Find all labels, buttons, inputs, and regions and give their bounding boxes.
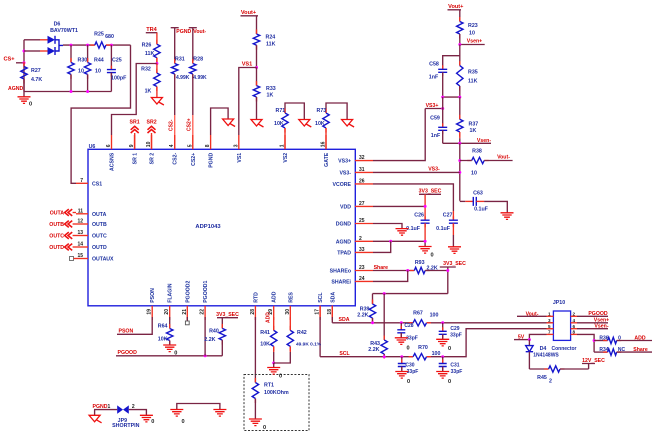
pin 32 VS3+ (right): [338, 155, 373, 165]
svg-text:0.1uF: 0.1uF: [474, 206, 489, 212]
capacitor C29 33pF: [439, 323, 462, 340]
pin 3 VS1 (top): [233, 135, 243, 163]
resistor R30 10: [68, 45, 87, 91]
svg-text:1: 1: [548, 312, 551, 317]
svg-text:PGOOD2: PGOOD2: [185, 280, 191, 302]
resistor R45 2: [529, 366, 588, 385]
svg-text:Share: Share: [374, 265, 389, 271]
svg-text:0: 0: [448, 346, 451, 352]
svg-text:CS1: CS1: [92, 181, 102, 187]
svg-text:13: 13: [77, 230, 83, 236]
svg-text:SR 1: SR 1: [133, 153, 139, 165]
resistor R26 11K: [142, 33, 160, 64]
wire to D6 upper anode: [24, 39, 48, 41]
ground 0 below C31: [436, 372, 451, 386]
capacitor C63 0.1uF: [460, 190, 508, 213]
resistor R31 4.99K: [172, 28, 190, 81]
pin 27 VDD (right): [340, 201, 373, 211]
svg-text:100: 100: [430, 312, 439, 318]
port OUTB: [49, 221, 76, 228]
svg-text:2: 2: [573, 312, 576, 317]
pin 8 PGND (top): [205, 135, 215, 168]
svg-text:Vsen-: Vsen-: [477, 138, 491, 144]
svg-text:1K: 1K: [145, 89, 152, 95]
svg-text:30: 30: [285, 309, 291, 315]
svg-text:1: 1: [108, 404, 111, 410]
wire SDA line: [332, 321, 553, 324]
svg-text:SHAREo: SHAREo: [330, 269, 351, 275]
svg-text:0: 0: [406, 345, 409, 351]
svg-text:VCORE: VCORE: [333, 182, 352, 188]
svg-text:3V3_SEC: 3V3_SEC: [443, 261, 466, 267]
ground 0 below R41: [267, 363, 282, 380]
svg-text:10K: 10K: [158, 336, 168, 342]
svg-text:OUTC: OUTC: [49, 234, 64, 240]
pin 17 SCL (bottom): [315, 292, 325, 320]
svg-text:R70: R70: [418, 345, 428, 351]
node AGND rail: [8, 86, 111, 93]
wire DGND to ground: [373, 224, 402, 229]
wire VDD to 3V3_SEC: [373, 205, 427, 208]
svg-text:1N4148WS: 1N4148WS: [533, 353, 559, 359]
ground 0 below RT1: [249, 419, 266, 431]
ground below C27: [448, 247, 461, 254]
pin 11 OUTA (left): [76, 208, 107, 218]
pin 1 JP10 (left): [547, 312, 554, 317]
svg-text:C25: C25: [112, 58, 122, 64]
svg-text:R33: R33: [266, 86, 276, 92]
node VS3- wire to pin 31: [373, 166, 460, 172]
resistor R25 680: [90, 32, 114, 49]
resistor R27 4.7K: [21, 62, 43, 92]
node PGND1: [93, 404, 118, 410]
svg-text:R41: R41: [260, 330, 270, 336]
node Share right: [633, 347, 648, 353]
wire AGND rail to ground: [373, 240, 427, 247]
svg-text:R30: R30: [78, 58, 88, 64]
svg-text:2.2K: 2.2K: [368, 347, 379, 353]
svg-text:2: 2: [359, 236, 362, 242]
pin 12 OUTB (left): [76, 219, 107, 229]
svg-text:33pF: 33pF: [451, 369, 463, 375]
ground 0 below R27: [18, 92, 33, 108]
svg-text:C30: C30: [405, 363, 414, 369]
svg-text:VS1: VS1: [237, 153, 243, 163]
resistor R33 1K: [253, 68, 275, 120]
svg-text:R44: R44: [94, 58, 104, 64]
svg-text:R37: R37: [469, 122, 479, 128]
svg-text:ADD: ADD: [272, 291, 278, 302]
pin 5 JP10 (left): [547, 324, 554, 329]
ground 0 below C28: [395, 338, 410, 352]
thermistor RT1 100KOhm: [252, 378, 289, 419]
ground below DGND: [396, 229, 409, 236]
node ADD right: [634, 335, 645, 341]
svg-text:100KOhm: 100KOhm: [264, 390, 289, 396]
svg-text:1K: 1K: [470, 128, 477, 134]
capacitor C27 0.1uF: [436, 212, 458, 247]
wire VS3+ to pin 32: [373, 109, 425, 161]
svg-text:SR1: SR1: [130, 120, 140, 126]
capacitor C58 1nF: [429, 56, 460, 97]
svg-text:R42: R42: [297, 330, 307, 336]
capacitor C25 100pF: [107, 45, 127, 91]
wire pullup rail 3V3_SEC: [373, 292, 448, 295]
svg-text:0: 0: [407, 379, 410, 385]
node 3V3_SEC right of R93: [440, 261, 466, 294]
pin 24 SHAREi (right): [331, 276, 373, 286]
svg-text:OUTC: OUTC: [92, 234, 107, 240]
svg-text:CS2-: CS2-: [173, 153, 179, 165]
svg-text:11: 11: [78, 208, 84, 214]
diode D4 1N4148WS: [526, 340, 533, 369]
svg-text:OUTD: OUTD: [92, 245, 107, 251]
node Share on SHAREo: [373, 265, 414, 272]
svg-text:27: 27: [359, 201, 365, 207]
node Vout- into JP10 pin 1: [517, 311, 547, 317]
svg-text:SCL: SCL: [318, 292, 324, 303]
wire SCL line: [320, 329, 553, 359]
svg-text:14: 14: [77, 242, 83, 248]
svg-text:1K: 1K: [267, 92, 274, 98]
svg-text:C29: C29: [450, 326, 459, 332]
svg-text:R28: R28: [193, 57, 203, 63]
wire VS1 to pin 3: [239, 68, 257, 136]
svg-text:28: 28: [250, 309, 256, 315]
node Vout+ (left): [241, 10, 259, 16]
svg-text:ADD: ADD: [634, 335, 645, 341]
resistor R93 2.2K: [410, 260, 448, 274]
wire PGOOD1 pin 22 riser: [204, 317, 206, 356]
svg-text:8: 8: [205, 144, 211, 147]
svg-text:R31: R31: [175, 57, 185, 63]
svg-text:PGND: PGND: [209, 153, 215, 168]
svg-text:SR 2: SR 2: [150, 153, 156, 165]
svg-text:20: 20: [164, 309, 170, 315]
svg-text:9: 9: [129, 144, 135, 147]
svg-text:OUTA: OUTA: [92, 212, 107, 218]
unconnected square pin 21: [185, 317, 189, 325]
svg-text:PGOOD1: PGOOD1: [203, 280, 209, 302]
svg-text:AGND: AGND: [8, 86, 24, 92]
resistor R42 49.9K 0.1%: [274, 317, 322, 363]
resistor R34 NC to Share: [594, 347, 652, 355]
resistor R64 10K: [158, 317, 173, 345]
svg-text:CS2-: CS2-: [169, 119, 175, 131]
svg-text:CS2+: CS2+: [187, 118, 193, 131]
capacitor C28 33pF: [397, 323, 418, 342]
svg-text:10: 10: [78, 69, 84, 75]
capacitor C30 33pF: [398, 357, 419, 375]
svg-text:R40: R40: [209, 329, 219, 335]
node 3V3_SEC above R40: [216, 312, 239, 318]
svg-text:4.99K: 4.99K: [176, 75, 190, 81]
svg-text:0: 0: [279, 374, 282, 380]
node 12V_SEC: [582, 358, 605, 369]
pin 23 SHAREo (right): [330, 265, 373, 275]
wire CS2- to pin 4: [169, 74, 175, 149]
node VS3+ rail: [425, 96, 461, 110]
pin 28 RTD (bottom): [250, 292, 260, 320]
pin 1 VS2 (top): [280, 135, 290, 163]
svg-text:Vsen+: Vsen+: [467, 38, 482, 44]
resistor R70 100: [409, 345, 441, 360]
resistor R38 10: [460, 149, 513, 177]
svg-text:PGOOD: PGOOD: [588, 311, 608, 317]
pin 16 GATE (top): [321, 135, 331, 167]
node Vout- label above R28: [189, 28, 207, 35]
wire to D6 lower anode: [24, 50, 48, 52]
pin 10 SR 2 (top): [146, 135, 156, 164]
diode D6 BAV70WT1 (dual common-cathode): [48, 22, 78, 56]
svg-text:0.1uF: 0.1uF: [436, 226, 451, 232]
svg-text:R34: R34: [599, 347, 608, 353]
node PGND label above R31: [171, 28, 192, 35]
svg-text:8: 8: [573, 330, 576, 335]
unconnected square pin 15 OUTAUX: [70, 257, 77, 261]
wire ACSNS route to pin 6: [112, 64, 157, 136]
power ground right of R71: [299, 120, 312, 128]
resistor R23 10: [457, 10, 478, 45]
svg-text:R71: R71: [276, 108, 286, 114]
svg-text:2.2K: 2.2K: [357, 313, 368, 319]
svg-text:C63: C63: [473, 190, 483, 196]
node CS+: [3, 57, 24, 63]
wire Vsen- vertical to VS3- and C63: [458, 143, 461, 201]
wire CS2+ to pin 5: [187, 74, 193, 149]
svg-text:24: 24: [359, 276, 365, 282]
capacitor C26 0.1uF: [406, 212, 429, 241]
svg-text:Vsen-: Vsen-: [594, 324, 608, 330]
svg-text:RTD: RTD: [253, 292, 259, 303]
svg-text:3: 3: [548, 318, 551, 323]
resistor R71 10K: [274, 103, 304, 149]
svg-text:DGND: DGND: [336, 222, 352, 228]
node Vout+ (right): [448, 4, 465, 10]
svg-text:R27: R27: [31, 68, 41, 74]
node PGOOD from JP10 pin 2: [577, 311, 608, 317]
svg-text:C59: C59: [430, 116, 440, 122]
svg-text:OUTA: OUTA: [50, 211, 65, 217]
svg-text:C58: C58: [429, 62, 439, 68]
svg-text:3: 3: [233, 144, 239, 147]
ground 0 below C30: [395, 372, 410, 386]
pin 30 RES (bottom): [285, 292, 295, 320]
svg-text:D4: D4: [540, 346, 547, 352]
svg-text:C26: C26: [414, 212, 424, 218]
svg-text:4.7K: 4.7K: [31, 77, 42, 83]
svg-text:4: 4: [169, 144, 175, 147]
wire PGND pin 8 riser: [211, 108, 229, 135]
pin 25 DGND (right): [336, 218, 373, 228]
svg-text:R26: R26: [142, 43, 152, 49]
node PSON: [117, 317, 152, 335]
pin 8 JP10 (right): [571, 330, 577, 335]
svg-text:10K: 10K: [260, 342, 270, 348]
svg-text:R36: R36: [599, 335, 608, 341]
svg-text:680: 680: [105, 34, 114, 40]
svg-text:SDA: SDA: [339, 317, 350, 323]
svg-text:PSON: PSON: [150, 288, 156, 303]
svg-text:NC: NC: [618, 347, 626, 353]
svg-text:U6: U6: [89, 144, 96, 150]
svg-text:1: 1: [280, 144, 286, 147]
svg-text:ACSNS: ACSNS: [110, 152, 116, 171]
svg-text:Vout+: Vout+: [448, 4, 464, 10]
svg-text:R38: R38: [472, 149, 482, 155]
power ground right of R73: [342, 120, 355, 128]
svg-text:0: 0: [430, 253, 433, 259]
svg-text:SR2: SR2: [147, 120, 157, 126]
pin 6 ACSNS (top): [106, 135, 116, 171]
svg-text:OUTAUX: OUTAUX: [92, 257, 114, 263]
svg-text:SDA: SDA: [330, 292, 336, 303]
svg-text:21: 21: [182, 309, 188, 315]
power ground below R33: [251, 120, 264, 128]
svg-text:VS3+: VS3+: [426, 103, 439, 109]
svg-text:D6: D6: [54, 22, 61, 28]
svg-text:7: 7: [548, 330, 551, 335]
resistor R36 0 to ADD: [594, 335, 652, 343]
svg-text:Vout-: Vout-: [193, 29, 206, 35]
node 5V: [514, 334, 531, 341]
svg-text:R25: R25: [94, 32, 104, 38]
svg-text:4.99K: 4.99K: [193, 75, 207, 81]
svg-text:Connector: Connector: [552, 346, 577, 352]
svg-text:R45: R45: [537, 375, 547, 381]
svg-text:TPAD: TPAD: [337, 250, 351, 256]
svg-text:33pF: 33pF: [407, 369, 419, 375]
svg-text:Share: Share: [633, 347, 648, 353]
resistor R32 1K: [141, 64, 160, 98]
pin 19 PSON (bottom): [147, 288, 157, 320]
svg-text:FLAGIN: FLAGIN: [168, 283, 174, 303]
node Vsen+ from JP10 pin 4: [577, 318, 609, 324]
svg-text:5: 5: [548, 324, 551, 329]
wire ground bridge: [177, 404, 220, 410]
svg-text:ADD: ADD: [266, 312, 272, 323]
svg-text:1nF: 1nF: [429, 75, 439, 81]
node ACSNS junction: [155, 62, 158, 65]
svg-text:R73: R73: [317, 108, 327, 114]
svg-text:1nF: 1nF: [431, 133, 441, 139]
ground 0 at JP9: [140, 415, 154, 425]
port SR2: [147, 120, 157, 150]
svg-text:R32: R32: [141, 67, 151, 73]
svg-text:19: 19: [147, 309, 153, 315]
svg-text:33pF: 33pF: [406, 336, 418, 342]
node ADD label pin 29: [266, 312, 272, 323]
svg-text:VDD: VDD: [340, 204, 351, 210]
svg-text:10K: 10K: [274, 121, 284, 127]
svg-text:32: 32: [359, 155, 365, 161]
wire top rail y=45.1: [63, 44, 131, 47]
node Vsen+: [458, 38, 484, 46]
pin 7 CS1 (left): [76, 178, 102, 188]
svg-text:5: 5: [187, 144, 193, 147]
pin 21 PGOOD2 (bottom): [182, 280, 192, 320]
resistor R43 2.2K: [368, 294, 387, 359]
resistor R37 1K: [457, 97, 479, 143]
pin 22 PGOOD1 (bottom): [200, 280, 210, 320]
capacitor C59 1nF: [430, 97, 447, 143]
pin 15 OUTAUX (left): [76, 253, 114, 263]
svg-text:SCL: SCL: [339, 351, 350, 357]
svg-text:12: 12: [77, 219, 83, 225]
pin 4 CS2- (top): [169, 135, 179, 165]
wire JP10 pin 8 branch: [577, 334, 596, 352]
resistor R24 11K: [253, 16, 275, 68]
svg-text:6: 6: [106, 144, 112, 147]
wire VCORE to C27: [373, 184, 453, 220]
svg-text:15: 15: [77, 253, 83, 259]
svg-text:RES: RES: [288, 292, 294, 303]
pin 18 SDA (bottom): [327, 292, 337, 320]
svg-text:R67: R67: [413, 310, 423, 316]
node Vout- label right: [497, 155, 510, 161]
svg-text:100: 100: [432, 351, 441, 357]
svg-text:23: 23: [359, 265, 365, 271]
port SR1: [130, 120, 140, 150]
node Vsen-: [443, 138, 492, 145]
pin 14 OUTD (left): [76, 242, 107, 252]
resistor R40 2.2K: [204, 318, 225, 356]
svg-text:7: 7: [80, 178, 83, 184]
wire SHAREi up to Share net: [373, 271, 408, 282]
svg-text:GATE: GATE: [324, 152, 330, 167]
pin 29 ADD (bottom): [268, 291, 278, 320]
svg-text:11K: 11K: [145, 51, 155, 57]
svg-text:31: 31: [359, 167, 365, 173]
node PGOOD: [116, 350, 222, 357]
pin 7 JP10 (left): [547, 330, 554, 335]
ground 0 left of bridge: [170, 410, 184, 426]
svg-text:R35: R35: [468, 70, 478, 76]
svg-text:3V3_SEC: 3V3_SEC: [216, 312, 239, 318]
svg-text:BAV70WT1: BAV70WT1: [50, 28, 78, 34]
jumper JP9 SHORTPIN: [112, 404, 140, 429]
svg-text:0: 0: [29, 102, 32, 108]
svg-text:11K: 11K: [266, 42, 276, 48]
svg-text:PGND: PGND: [93, 404, 108, 410]
node Vsen- from JP10 pin 6: [577, 324, 609, 330]
wire CS1 sense route: [71, 45, 130, 183]
svg-text:0: 0: [448, 379, 451, 385]
pin 31 VS3- (right): [339, 167, 373, 177]
resistor R28 4.99K: [190, 28, 207, 81]
wire JP10 pin 7 to 5V: [529, 334, 546, 339]
svg-text:R23: R23: [468, 23, 478, 29]
svg-text:OUTB: OUTB: [49, 222, 64, 228]
svg-text:SHAREi: SHAREi: [331, 279, 351, 285]
svg-text:VS3-: VS3-: [428, 166, 440, 172]
svg-text:10: 10: [469, 31, 475, 37]
pin 4 JP10 (right): [571, 318, 577, 323]
port OUTD: [49, 244, 76, 251]
svg-text:33: 33: [359, 247, 365, 253]
port OUTA: [50, 209, 76, 216]
svg-text:R24: R24: [266, 35, 276, 41]
svg-text:10: 10: [95, 69, 101, 75]
ground below C63: [501, 213, 514, 220]
pin 13 OUTC (left): [76, 230, 107, 240]
svg-text:VS2: VS2: [283, 153, 289, 163]
node SCL: [320, 306, 350, 357]
svg-text:VS3-: VS3-: [339, 170, 351, 176]
ground right of bridge: [213, 410, 226, 417]
svg-text:C27: C27: [443, 212, 453, 218]
svg-text:R64: R64: [158, 324, 168, 330]
